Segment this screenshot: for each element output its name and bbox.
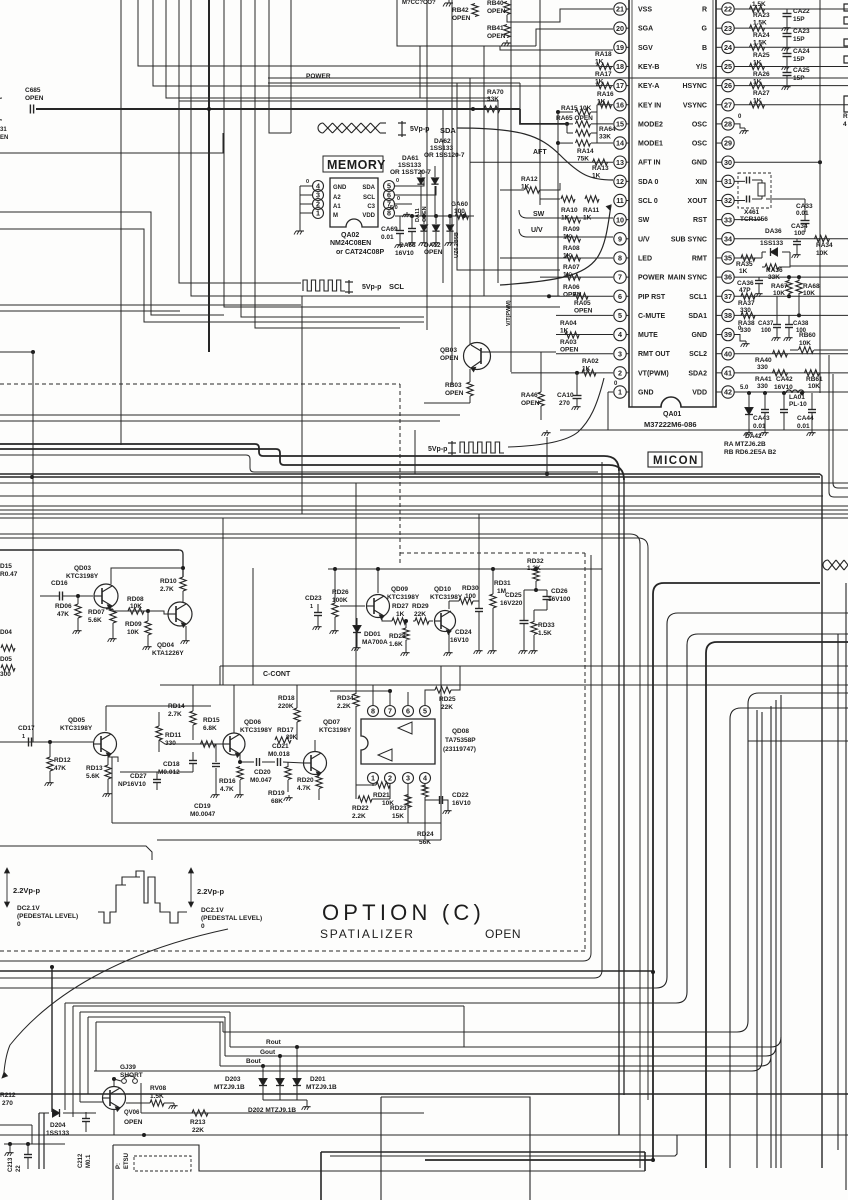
wire pin13 AFT IN: [470, 161, 613, 163]
crystal element: [758, 183, 765, 196]
resistor RD08: [128, 608, 144, 614]
capacitor CD22: [439, 796, 441, 804]
diode DA62: [431, 178, 438, 184]
svg-text:RA08: RA08: [563, 245, 580, 252]
ground: [492, 648, 494, 651]
pin 39 GND: [722, 328, 734, 340]
svg-text:LED: LED: [638, 255, 652, 262]
svg-text:4.7K: 4.7K: [297, 785, 311, 792]
svg-text:Bout: Bout: [246, 1058, 262, 1065]
wire C-CONT: [220, 665, 848, 667]
ground: [447, 808, 449, 811]
node junction: [30, 475, 34, 479]
wire bottom right corner boxes: [320, 1152, 322, 1200]
svg-text:QA02: QA02: [341, 232, 359, 239]
wire RD15 row: [159, 740, 223, 744]
svg-text:KEY-A: KEY-A: [638, 83, 659, 90]
dashed box inside ETSU: [134, 1156, 191, 1171]
svg-text:OPEN: OPEN: [25, 95, 44, 102]
resistor RB42: [472, 4, 478, 17]
svg-text:SUB SYNC: SUB SYNC: [671, 236, 707, 243]
wire Rout: [230, 1037, 781, 1047]
wire vertical elbow x65: [64, 1003, 66, 1110]
node junction: [422, 214, 426, 218]
svg-text:RD22: RD22: [352, 805, 369, 812]
wire vertical x230 to Rout: [229, 1012, 231, 1047]
wire vertical right: [819, 0, 821, 393]
svg-text:10K: 10K: [816, 250, 828, 257]
svg-text:RD34: RD34: [337, 695, 354, 702]
svg-text:1K: 1K: [595, 59, 604, 66]
resistor RA06: [566, 274, 581, 280]
resistor RD30: [459, 598, 473, 604]
svg-text:5: 5: [618, 311, 622, 320]
capacitor CD18: [189, 760, 197, 762]
svg-text:OR 1SS120-7: OR 1SS120-7: [424, 152, 465, 159]
svg-text:33: 33: [724, 215, 732, 224]
svg-text:22: 22: [724, 5, 732, 14]
svg-text:R212: R212: [0, 1092, 16, 1099]
svg-text:OPEN: OPEN: [487, 33, 506, 40]
svg-text:8: 8: [371, 707, 375, 716]
pin 24 B: [722, 41, 734, 53]
svg-text:QD03: QD03: [74, 565, 91, 572]
wire pin27 VSYNC: [734, 104, 848, 106]
transistor QD09: [367, 595, 390, 618]
wire ground rail y430: [560, 429, 848, 431]
resistor RB61: [805, 370, 820, 376]
svg-text:CD25: CD25: [505, 592, 522, 599]
svg-text:RA12: RA12: [521, 176, 538, 183]
svg-text:RV08: RV08: [150, 1085, 167, 1092]
wire: [191, 0, 301, 296]
resistor R213: [192, 1110, 208, 1116]
ground: [533, 648, 535, 651]
connector box right edge 3: [844, 39, 848, 46]
pin 4 MUTE: [614, 328, 626, 340]
svg-text:33K: 33K: [599, 134, 611, 141]
svg-text:KEY IN: KEY IN: [638, 102, 661, 109]
wire nest 2: [0, 613, 848, 988]
node junction: [142, 1133, 146, 1137]
svg-text:QD09: QD09: [391, 586, 408, 593]
wire QD05 collector: [105, 706, 107, 731]
wire: [153, 0, 600, 86]
svg-text:SDA: SDA: [362, 185, 375, 191]
pin 10 SW: [614, 213, 626, 225]
svg-text:RA05: RA05: [574, 300, 591, 307]
wire bottom rail: [0, 1134, 848, 1136]
svg-text:RA02: RA02: [582, 358, 599, 365]
diode DD01: [353, 626, 361, 633]
wire: [483, 46, 485, 296]
resistor RD06: [75, 604, 81, 618]
wire pin14 MODE1: [558, 142, 573, 144]
svg-text:1: 1: [371, 774, 375, 783]
diode D201: [293, 1079, 301, 1086]
svg-text:10: 10: [616, 215, 624, 224]
svg-text:RD20: RD20: [297, 777, 314, 784]
pin 40 SCL2: [722, 348, 734, 360]
ground: [306, 1104, 308, 1107]
pin 8: [384, 208, 395, 219]
wire pin10 SW: [519, 210, 613, 218]
svg-text:1.5K: 1.5K: [538, 630, 552, 637]
wire pin6 PIP RST: [548, 295, 613, 297]
svg-text:VSS: VSS: [638, 7, 652, 14]
ground: [448, 650, 450, 653]
wire pointer curve: [4, 929, 228, 1072]
svg-text:U/V: U/V: [531, 227, 543, 234]
svg-text:5.0: 5.0: [390, 205, 398, 211]
capacitor CD24 wire: [478, 601, 480, 608]
ground: [215, 792, 217, 795]
svg-text:0: 0: [396, 178, 399, 184]
capacitor CD26: [543, 596, 552, 598]
wire pin36 MAIN SYNC: [734, 276, 848, 278]
pin 3: [313, 190, 324, 201]
svg-text:RD30: RD30: [462, 585, 479, 592]
pin 35 RMT: [722, 252, 734, 264]
svg-text:(23119747): (23119747): [443, 746, 476, 753]
pin 5 C-MUTE: [614, 309, 626, 321]
resistor RD10: [180, 577, 186, 591]
svg-text:RA25: RA25: [753, 52, 770, 59]
wire thick row y1094: [0, 1093, 848, 1095]
svg-text:LA01: LA01: [789, 394, 805, 401]
svg-text:CD18: CD18: [163, 761, 180, 768]
ground: [523, 648, 525, 651]
svg-text:M?CC?CO?: M?CC?CO?: [402, 0, 436, 6]
wire diode commons: [263, 1099, 307, 1101]
svg-text:1.2K: 1.2K: [527, 565, 541, 572]
svg-text:RMT OUT: RMT OUT: [638, 351, 671, 358]
resistor left edge: [1, 645, 15, 651]
svg-text:RD17: RD17: [277, 727, 294, 734]
wire vertical: [519, 83, 521, 110]
svg-text:RA70: RA70: [487, 89, 504, 96]
node junction: [181, 566, 185, 570]
svg-text:GND: GND: [691, 332, 707, 339]
wire QD09 emitter: [382, 618, 392, 621]
svg-text:2: 2: [618, 368, 622, 377]
svg-text:MODE1: MODE1: [638, 141, 663, 148]
ground: [744, 128, 746, 131]
svg-text:Y/S: Y/S: [696, 64, 708, 71]
svg-text:16V10: 16V10: [395, 250, 414, 257]
svg-text:100: 100: [794, 230, 805, 237]
svg-text:CA22: CA22: [793, 8, 810, 15]
svg-text:4.7K: 4.7K: [220, 786, 234, 793]
svg-text:SPATIALIZER: SPATIALIZER: [320, 927, 415, 941]
wire y1144 row: [4, 1143, 65, 1145]
pin 4: [420, 773, 431, 784]
pin 2: [313, 199, 324, 210]
svg-text:OPEN: OPEN: [560, 347, 579, 354]
ground: [173, 1103, 175, 1106]
svg-text:15P: 15P: [793, 75, 805, 82]
svg-text:RB61: RB61: [806, 376, 823, 383]
svg-text:24: 24: [724, 43, 732, 52]
capacitor symbol 5Vp-p: [401, 121, 403, 137]
svg-text:V/T(PWM): V/T(PWM): [506, 300, 512, 326]
opamp triangle 2: [378, 749, 392, 761]
wire: [179, 0, 301, 283]
wire curve SDA to pin12: [457, 128, 613, 180]
svg-text:CA44: CA44: [797, 415, 814, 422]
resistor RA34: [815, 236, 830, 242]
resistor RD32: [533, 569, 539, 581]
svg-text:RB41: RB41: [487, 25, 504, 32]
svg-text:2.7K: 2.7K: [168, 711, 182, 718]
svg-text:9: 9: [618, 234, 622, 243]
resistor RA09: [566, 216, 581, 222]
wire pin40 SCL2: [734, 353, 848, 355]
svg-text:D04: D04: [0, 629, 12, 636]
resistor RA36: [765, 264, 779, 270]
svg-text:RA10: RA10: [561, 207, 578, 214]
wire QD07 collector: [314, 740, 316, 751]
svg-text:KTC3198Y: KTC3198Y: [66, 573, 99, 580]
node junction: [462, 214, 466, 218]
resistor RA70: [484, 106, 500, 112]
wire QD05 base rail: [0, 741, 93, 743]
capacitor CA24: [783, 53, 792, 55]
svg-text:330: 330: [740, 327, 751, 334]
capacitor CD16: [59, 592, 61, 601]
resistor RA27: [750, 82, 765, 88]
resistor RD09: [145, 621, 151, 635]
capacitor CD23: [314, 612, 322, 614]
svg-text:RA24: RA24: [753, 32, 770, 39]
svg-text:QD08: QD08: [452, 728, 469, 735]
pin 3 RMT OUT: [614, 348, 626, 360]
wire bus double bottom: [0, 476, 820, 478]
svg-text:2.2Vp-p: 2.2Vp-p: [13, 886, 41, 895]
svg-text:MA700A: MA700A: [362, 639, 388, 646]
resistor RA64: [566, 124, 568, 133]
pin 30 GND: [722, 156, 734, 168]
svg-text:CA37: CA37: [758, 321, 774, 327]
pin 1: [313, 208, 324, 219]
svg-text:CD26: CD26: [551, 588, 568, 595]
wire QD05 out: [108, 757, 118, 762]
wire memory address pins: [300, 185, 312, 187]
svg-text:D204: D204: [50, 1122, 66, 1129]
connector box right edge 4: [844, 56, 848, 63]
capacitor C212: [82, 1118, 90, 1120]
wire: [0, 310, 180, 312]
wire pin2 VT(PWM): [511, 372, 613, 374]
svg-text:OR 1SST20-7: OR 1SST20-7: [390, 169, 431, 176]
svg-text:1: 1: [316, 209, 320, 218]
pin 41 SDA2: [722, 367, 734, 379]
resistor RV08: [150, 1100, 164, 1106]
wire right edge vertical x838: [837, 634, 839, 1150]
wire vertical right A: [618, 471, 620, 1135]
label MICON: [648, 452, 702, 467]
svg-text:RA04: RA04: [560, 320, 577, 327]
svg-text:R0.47: R0.47: [0, 571, 18, 578]
wire base QB03 east: [490, 351, 556, 353]
ground: [506, 40, 508, 43]
wire east from RA36: [790, 265, 848, 267]
svg-text:15P: 15P: [793, 36, 805, 43]
svg-text:SDA2: SDA2: [688, 370, 707, 377]
svg-text:CD19: CD19: [194, 803, 211, 810]
node junction: [787, 275, 791, 279]
wire bus: [0, 482, 848, 484]
label MEMORY: [323, 156, 383, 172]
svg-text:RD07: RD07: [88, 609, 105, 616]
inductor LA01: [786, 390, 804, 393]
ground: [49, 780, 51, 783]
svg-text:1SS133: 1SS133: [46, 1130, 70, 1137]
wire bus thick B: [0, 449, 624, 480]
svg-text:RA46: RA46: [521, 392, 538, 399]
svg-text:D05: D05: [0, 656, 12, 663]
svg-text:OPEN: OPEN: [487, 8, 506, 15]
wire QD04 emitter: [185, 626, 187, 638]
transistor QD04: [168, 602, 192, 626]
resistor RA13 on AFT line: [593, 159, 608, 165]
wire: [0, 351, 33, 353]
wire: [255, 0, 400, 328]
diode D202: [276, 1079, 284, 1086]
wire RD34 riser: [355, 483, 357, 685]
node junction: [278, 1054, 282, 1058]
node junction: [26, 1142, 30, 1146]
svg-text:M37222M6-086: M37222M6-086: [644, 420, 697, 429]
pin 12 SDA 0: [614, 175, 626, 187]
svg-text:100: 100: [465, 593, 476, 600]
svg-text:39: 39: [724, 330, 732, 339]
svg-text:SGA: SGA: [638, 26, 653, 33]
svg-text:MAIN SYNC: MAIN SYNC: [668, 275, 707, 282]
svg-text:5.0: 5.0: [740, 385, 749, 391]
wire box around option 2: [0, 462, 602, 978]
resistor RA02: [582, 370, 596, 376]
svg-text:(PEDESTAL LEVEL): (PEDESTAL LEVEL): [17, 913, 78, 920]
pin 7: [385, 706, 396, 717]
node junction: [575, 371, 579, 375]
svg-text:16V10: 16V10: [450, 637, 469, 644]
wire nest thick 1: [653, 583, 820, 1160]
ground: [449, 240, 451, 243]
node junction: [545, 472, 549, 476]
wire bus: [0, 505, 848, 507]
svg-text:VT(PWM): VT(PWM): [638, 370, 669, 377]
capacitor CA10: [573, 395, 582, 397]
pin 3: [403, 773, 414, 784]
wire pin41 SDA2: [734, 372, 848, 374]
pin 23 G: [722, 22, 734, 34]
ground: [423, 240, 425, 243]
module box HIC: [397, 0, 536, 46]
svg-text:CA68: CA68: [399, 242, 416, 249]
wire audio top rail thick: [0, 549, 179, 551]
svg-text:CD24: CD24: [455, 629, 472, 636]
svg-text:5Vp-p: 5Vp-p: [428, 446, 447, 453]
wire vertical x225 to Gout: [224, 1017, 226, 1056]
diode D204: [53, 1109, 60, 1117]
svg-text:41: 41: [724, 368, 732, 377]
wire riser x597: [596, 105, 598, 143]
node junction: [295, 1045, 299, 1049]
pin 42 VDD: [722, 386, 734, 398]
wire vertical: [510, 0, 512, 372]
resistor RD26: [332, 603, 338, 617]
wire nest 6: [730, 708, 848, 1168]
wire pin9 U/V: [519, 229, 613, 237]
svg-text:15P: 15P: [793, 16, 805, 23]
svg-text:RA MTZJ6.2B: RA MTZJ6.2B: [724, 441, 766, 448]
ground: [448, 0, 450, 3]
wire nest vertical x762: [94, 712, 762, 1071]
wire nest vertical x781 Rout: [780, 695, 782, 1168]
svg-text:1.5K: 1.5K: [150, 1093, 164, 1100]
wire pin42 VDD: [734, 391, 848, 393]
wire pin4 MUTE: [556, 334, 613, 336]
svg-text:16V220: 16V220: [500, 600, 523, 607]
svg-text:KTC3198Y: KTC3198Y: [240, 727, 273, 734]
wire to QD10 base: [429, 620, 433, 622]
connector box right edge 2: [844, 17, 848, 24]
svg-text:XOUT: XOUT: [688, 198, 708, 205]
svg-text:29: 29: [724, 139, 732, 148]
resistor RB40: [504, 2, 510, 15]
svg-text:38: 38: [724, 311, 732, 320]
ground: [317, 624, 319, 627]
pin 36 MAIN SYNC: [722, 271, 734, 283]
resistor RD12: [47, 757, 53, 771]
svg-text:QD07: QD07: [323, 719, 340, 726]
svg-text:100K: 100K: [332, 597, 348, 604]
wire pin7 POWER: [540, 276, 613, 278]
pin 2: [385, 773, 396, 784]
svg-text:ETSU: ETSU: [124, 1153, 130, 1169]
svg-text:5Vp-p: 5Vp-p: [410, 126, 429, 133]
wire pin38 SDA1: [734, 314, 848, 316]
wire pulse box left edge: [414, 430, 416, 474]
coil partial right edge: [828, 560, 848, 570]
capacitor C213: [24, 1154, 32, 1156]
wire: [524, 589, 547, 591]
wire audio bottom rails: [112, 822, 441, 824]
resistor RD28: [403, 628, 409, 640]
wire vertical x220 to Bout: [219, 1022, 221, 1066]
pin 7 POWER: [614, 271, 626, 283]
resistor RB03: [467, 382, 473, 396]
wire right column hook 1: [829, 355, 848, 497]
svg-text:RD09: RD09: [125, 621, 142, 628]
node junction: [787, 294, 791, 298]
wire pin1 GND: [608, 391, 613, 393]
svg-text:100: 100: [454, 208, 465, 215]
svg-text:SDA: SDA: [440, 126, 456, 135]
svg-text:0: 0: [397, 196, 400, 202]
wire bus: [0, 495, 823, 497]
wire DA61/DA62 tops: [420, 170, 422, 177]
svg-text:KTC3198Y: KTC3198Y: [319, 727, 352, 734]
svg-text:CA42: CA42: [776, 376, 793, 383]
svg-text:47P: 47P: [739, 287, 751, 294]
resistor RD18: [294, 708, 300, 722]
wire vertical right B: [623, 480, 625, 1095]
svg-text:100: 100: [761, 328, 772, 334]
svg-text:4: 4: [843, 121, 847, 128]
ground: [288, 795, 290, 798]
